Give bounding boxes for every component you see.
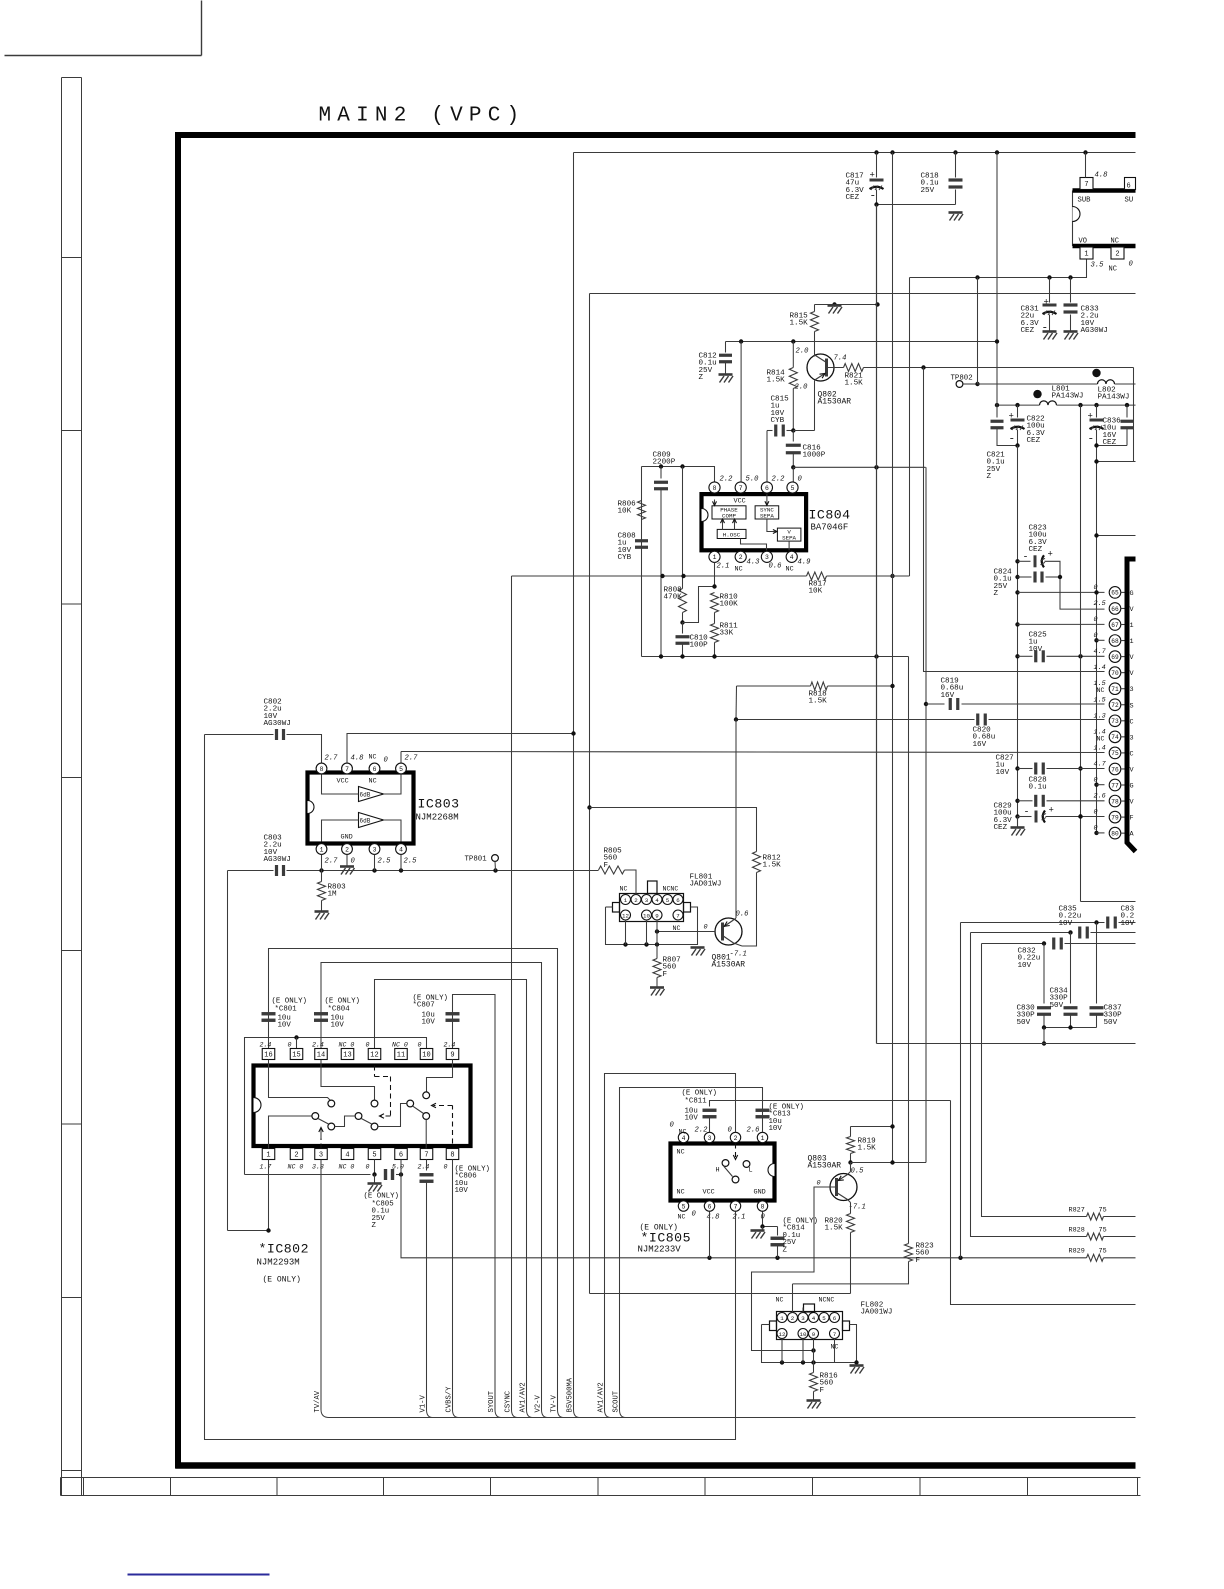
IC802 pin 15: [290, 1049, 303, 1060]
svg-text:NC: NC: [1111, 238, 1119, 246]
svg-text:2: 2: [739, 554, 743, 561]
svg-text:75: 75: [1099, 1248, 1107, 1256]
svg-text:3: 3: [708, 1135, 712, 1142]
svg-text:470K: 470K: [664, 594, 683, 602]
svg-text:6: 6: [765, 485, 769, 492]
svg-text:-: -: [1023, 553, 1029, 564]
capacitor C831: [1049, 278, 1051, 303]
svg-text:0: 0: [288, 1042, 292, 1049]
svg-text:7: 7: [424, 1152, 428, 1160]
wire pin67 line: [1015, 622, 1019, 626]
svg-text:4.3: 4.3: [747, 559, 761, 567]
svg-text:2.4: 2.4: [312, 1042, 324, 1049]
svg-text:NCNC: NCNC: [663, 886, 679, 893]
svg-text:10V: 10V: [1018, 962, 1032, 970]
wire L802 line y=383.5: [978, 383, 1098, 385]
IC802 pin 8: [446, 1149, 459, 1160]
wire C811 line y=1100 to page edge: [710, 1101, 951, 1107]
VPC pin 74: [1109, 731, 1121, 743]
svg-text:79: 79: [1111, 814, 1119, 821]
wire C835 line y=922: [961, 922, 1105, 924]
wire pin65 line: [1015, 590, 1019, 594]
svg-text:25V: 25V: [921, 187, 935, 195]
wire rail x=925.5 (sync to pin72 / Q803): [925, 467, 927, 1162]
wire rail C y=404.6: [997, 404, 1040, 406]
svg-text:CYB: CYB: [771, 417, 785, 425]
wire C-line y=932: [971, 932, 1071, 934]
svg-text:(E ONLY): (E ONLY): [325, 998, 360, 1006]
FL802 pin 5: [819, 1313, 829, 1323]
wire IC804 pin7 up to y=341: [740, 342, 742, 482]
svg-text:1: 1: [713, 554, 717, 561]
svg-text:6: 6: [676, 897, 680, 904]
svg-text:NJM2268M: NJM2268M: [416, 813, 459, 823]
VPC pin 67: [1109, 619, 1121, 631]
IC802 pin 5: [368, 1149, 381, 1160]
wire rail x=908 (from bus y=656 through R823): [908, 657, 910, 1244]
svg-text:5: 5: [791, 485, 795, 492]
svg-text:1: 1: [761, 1135, 765, 1142]
svg-text:Z: Z: [783, 1246, 788, 1254]
svg-text:F: F: [820, 1387, 825, 1395]
svg-text:10V: 10V: [422, 1019, 436, 1027]
resistor R811: [714, 613, 716, 624]
wire FL801 bottom links: [606, 906, 613, 908]
svg-text:+: +: [1044, 298, 1049, 308]
svg-text:68: 68: [1111, 638, 1119, 645]
resistor R828: [1087, 1233, 1104, 1240]
FL801 pin 1: [621, 895, 631, 905]
svg-text:3: 3: [765, 554, 769, 561]
svg-text:2: 2: [345, 846, 349, 853]
IC802 pin3 dashed arrow: [320, 1139, 322, 1149]
svg-text:0.6: 0.6: [736, 911, 750, 919]
svg-text:2.4: 2.4: [260, 1042, 272, 1049]
svg-text:SYOUT: SYOUT: [488, 1390, 496, 1412]
inductor L801: [1040, 401, 1057, 405]
wire signal rail curve: [558, 1410, 564, 1418]
svg-text:B5V500MA: B5V500MA: [567, 1377, 575, 1412]
svg-text:H.OSC: H.OSC: [723, 532, 741, 539]
svg-text:R827: R827: [1069, 1207, 1085, 1215]
wire R818 line y=685.5: [737, 685, 811, 687]
svg-text:2: 2: [634, 897, 638, 904]
svg-text:2200P: 2200P: [653, 459, 676, 467]
IC803 pin 5: [396, 763, 407, 774]
svg-text:G: G: [1130, 783, 1134, 791]
svg-text:14: 14: [317, 1052, 325, 1060]
IC805 pin 7: [730, 1201, 740, 1211]
svg-text:A1530AR: A1530AR: [712, 961, 746, 970]
IC802 pin 2: [290, 1149, 303, 1160]
IC801 VPC body edge (cut): [1125, 557, 1136, 852]
resistor R819: [851, 1126, 893, 1128]
svg-text:(E ONLY): (E ONLY): [364, 1193, 399, 1201]
svg-text:4.8: 4.8: [351, 755, 365, 763]
svg-text:4.7: 4.7: [1094, 648, 1107, 656]
svg-text:66: 66: [1111, 606, 1119, 613]
svg-text:0: 0: [351, 858, 356, 866]
svg-text:6: 6: [1127, 183, 1131, 191]
wire x=996.5 from B5V to rail C: [996, 153, 998, 406]
svg-text:2.5: 2.5: [404, 858, 418, 866]
IC803 pin 6: [369, 763, 380, 774]
capacitor C817: [876, 153, 878, 178]
svg-text:10: 10: [800, 1331, 807, 1338]
svg-text:8: 8: [320, 766, 324, 773]
IC802 pin 4: [341, 1149, 354, 1160]
ground right of FL801: [691, 946, 705, 949]
FL801 pin 10: [642, 910, 652, 920]
svg-text:-: -: [1024, 808, 1030, 819]
wire C819 line to pin72: [926, 703, 945, 705]
svg-text:3: 3: [801, 1315, 805, 1322]
wire base line y=367 with R821: [827, 367, 844, 369]
svg-text:1.5K: 1.5K: [767, 377, 786, 385]
capacitor C836 (electrolytic): [1096, 405, 1098, 417]
svg-text:*IC805: *IC805: [641, 1231, 691, 1246]
IC804 pin 8: [709, 482, 720, 493]
svg-text:1.5K: 1.5K: [858, 1145, 877, 1153]
wire outer bottom bus y=1439: [205, 735, 736, 1440]
resistor R806: [638, 501, 646, 520]
capacitor C812: [725, 342, 727, 353]
ground below C812: [719, 373, 733, 376]
FL802 pin 4: [809, 1313, 819, 1323]
wire rail x=909 (VO to CSYNC line): [909, 278, 911, 577]
page corner box (top-left): [5, 55, 202, 57]
capacitor C837: [1096, 923, 1098, 1004]
svg-text:1: 1: [1130, 622, 1134, 630]
svg-text:69: 69: [1111, 654, 1119, 661]
IC802 pin 12: [368, 1049, 381, 1060]
FL801 pin 5: [663, 895, 673, 905]
svg-text:6: 6: [399, 1152, 403, 1160]
transistor Q803: [830, 1174, 857, 1201]
VPC pin 75: [1109, 747, 1121, 759]
resistor R821: [844, 364, 864, 372]
svg-text:10K: 10K: [618, 508, 632, 516]
svg-text:NC 0: NC 0: [339, 1042, 355, 1049]
transistor Q801: [715, 918, 742, 945]
svg-text:*IC802: *IC802: [259, 1242, 309, 1257]
IC804 pin 7: [735, 482, 746, 493]
svg-text:C: C: [1130, 718, 1134, 726]
svg-text:4: 4: [345, 1152, 349, 1160]
svg-text:10K: 10K: [809, 588, 823, 596]
svg-text:10V: 10V: [1121, 920, 1135, 928]
svg-text:Z: Z: [987, 473, 992, 481]
svg-text:-: -: [870, 191, 877, 203]
svg-text:2.2: 2.2: [772, 476, 786, 484]
svg-text:74: 74: [1111, 734, 1119, 741]
ground IC803 pin2: [346, 855, 348, 867]
IC804 pin 4: [786, 551, 797, 562]
FL802 pin 9: [809, 1329, 819, 1339]
svg-text:10V: 10V: [278, 1022, 292, 1030]
svg-text:+: +: [1049, 806, 1054, 816]
svg-text:2: 2: [734, 1135, 738, 1142]
wire rail x=950 down to y=1304: [951, 1101, 1136, 1305]
IC805 pin 5: [678, 1201, 688, 1211]
FL801 pin 6: [673, 895, 683, 905]
FL802 top tab: [804, 1304, 815, 1312]
svg-text:80: 80: [1111, 830, 1119, 837]
wire B5V bus y=152: [574, 152, 1136, 154]
svg-text:0: 0: [1129, 261, 1134, 269]
svg-text:G: G: [1130, 590, 1134, 598]
svg-text:2.4: 2.4: [444, 1042, 456, 1049]
capacitor C813 (E ONLY): [756, 1109, 770, 1112]
wire Q801 collector rail x=735.5: [735, 686, 738, 720]
wire IC803 bottom bus y=870: [322, 870, 599, 872]
wire IC802 pin1 to left rail: [228, 1160, 269, 1231]
svg-text:F: F: [916, 1257, 921, 1265]
svg-text:Z: Z: [994, 590, 999, 598]
svg-text:0.5: 0.5: [851, 1168, 865, 1176]
wire pin80 line: [1094, 831, 1098, 835]
IC802 pin 9: [446, 1049, 459, 1060]
VPC pin 70: [1109, 667, 1121, 679]
svg-text:7: 7: [734, 1203, 738, 1210]
svg-text:0: 0: [366, 1164, 370, 1171]
pin 7 of top-right connector: [1080, 178, 1093, 190]
svg-text:SUB: SUB: [1078, 197, 1092, 205]
IC803 pin 8: [316, 763, 327, 774]
svg-text:4: 4: [790, 554, 794, 561]
svg-text:5: 5: [372, 1152, 376, 1160]
wire R817 CSYNC line y=575: [512, 575, 807, 577]
wire loop2 y=962 (V2-V): [321, 963, 542, 1410]
svg-text:2.7: 2.7: [325, 755, 339, 763]
svg-text:16: 16: [264, 1052, 272, 1060]
svg-text:10V: 10V: [769, 1125, 783, 1133]
svg-text:0: 0: [728, 1127, 733, 1135]
FL802 pin 6: [830, 1313, 840, 1323]
svg-text:CYB: CYB: [618, 554, 632, 562]
svg-text:AG30WJ: AG30WJ: [264, 720, 291, 728]
capacitor C835: [1106, 917, 1109, 929]
capacitor C804 (E ONLY): [314, 1012, 328, 1015]
VPC pin 73: [1109, 715, 1121, 727]
svg-text:65: 65: [1111, 590, 1119, 597]
connector/IC top-right (cut) body: [1072, 191, 1074, 247]
svg-text:VCC: VCC: [337, 778, 349, 786]
wire rail x=970 to R828: [971, 933, 1087, 1237]
svg-text:V2-V: V2-V: [535, 1395, 543, 1413]
svg-text:0: 0: [444, 1164, 448, 1171]
IC802 pin 1: [262, 1149, 275, 1160]
IC804 pin 2: [735, 551, 746, 562]
svg-text:10V: 10V: [996, 769, 1010, 777]
svg-text:0: 0: [418, 1042, 422, 1049]
wire rail x=573 (B5V500MA): [573, 153, 575, 1410]
svg-text:1.5K: 1.5K: [790, 320, 809, 328]
svg-text:*C807: *C807: [413, 1002, 435, 1010]
svg-text:AG30WJ: AG30WJ: [1081, 327, 1108, 335]
capacitor C810: [682, 623, 684, 634]
wire bottom signal bus y=1417: [321, 1410, 1136, 1418]
svg-text:*C804: *C804: [328, 1006, 351, 1014]
wire loop1 y=948 (TV-V): [269, 949, 558, 1410]
svg-text:NC: NC: [369, 778, 377, 786]
IC804 pin 3: [761, 551, 772, 562]
wire signal rail curve: [495, 1410, 501, 1418]
wire IC803 pin5 line y=751 to pin75: [400, 752, 402, 763]
VPC pin 71: [1109, 683, 1121, 695]
VPC pin 69: [1109, 651, 1121, 663]
svg-text:1: 1: [624, 897, 628, 904]
svg-text:0: 0: [1094, 616, 1098, 624]
wire rail x=589: [589, 294, 591, 1294]
svg-text:VO: VO: [1079, 238, 1087, 246]
resistor R817: [807, 572, 827, 580]
wire C809 top bus y=466: [642, 467, 715, 482]
VPC pin 79: [1109, 811, 1121, 823]
wire pin5 drop from sync node: [792, 467, 794, 482]
svg-text:NC: NC: [786, 566, 794, 574]
capacitor C819: [949, 698, 952, 710]
svg-text:+: +: [870, 171, 875, 181]
svg-text:TV/AV: TV/AV: [314, 1390, 322, 1412]
inductor L802: [1098, 380, 1115, 384]
svg-text:1.3: 1.3: [1094, 712, 1106, 720]
svg-text:71: 71: [1111, 686, 1119, 693]
wire C830 column to y=1043 line: [1043, 1028, 1045, 1044]
IC805 pin 2: [730, 1132, 740, 1142]
capacitor C801 (E ONLY): [262, 1012, 276, 1015]
resistor R829: [1087, 1254, 1104, 1261]
IC805 switch: [722, 1160, 729, 1167]
svg-text:4.8: 4.8: [707, 1214, 721, 1222]
capacitor on y=932 line: [1078, 927, 1081, 939]
svg-text:BA7046F: BA7046F: [811, 523, 849, 533]
svg-text:12: 12: [622, 912, 629, 919]
wire rail x=892: [892, 153, 894, 1163]
FL802 pin 1: [777, 1313, 787, 1323]
IC803 body: [308, 773, 414, 844]
node C815/R814/Q802emitter: [791, 428, 795, 432]
wire signal rail curve: [427, 1410, 433, 1418]
svg-text:0: 0: [384, 757, 389, 765]
svg-text:A1530AR: A1530AR: [808, 1162, 842, 1171]
wire loop4 y=994 (SYOUT): [453, 995, 496, 1410]
wire Q803 collector to R820: [848, 1200, 851, 1203]
IC802 pin 13: [341, 1049, 354, 1060]
IC802 switch link wires: [335, 1116, 355, 1127]
capacitor C806 (E ONLY): [420, 1173, 434, 1176]
svg-text:*C811: *C811: [685, 1098, 708, 1106]
svg-text:0: 0: [817, 1180, 821, 1188]
resistor R820: [847, 1214, 855, 1233]
svg-text:4: 4: [682, 1135, 686, 1142]
wire signal rail curve: [512, 1410, 518, 1418]
footer underline mark: [128, 1574, 270, 1576]
capacitor C828: [1015, 799, 1019, 803]
svg-text:0: 0: [1094, 825, 1098, 833]
svg-text:7: 7: [1084, 181, 1088, 189]
svg-text:SEPA: SEPA: [782, 535, 796, 542]
left margin ruler: [61, 78, 63, 1496]
filter FL802 body: [777, 1312, 843, 1340]
svg-text:R829: R829: [1069, 1248, 1085, 1256]
FL801 pin 4: [652, 895, 662, 905]
IC802 pin 10: [420, 1049, 433, 1060]
wire C820 line y=719 to pin73: [736, 719, 975, 721]
wire rail x=1080 corner to page edge y=901: [1081, 901, 1136, 903]
wire R808 elbow to R810 column: [683, 587, 715, 623]
svg-text:100P: 100P: [690, 642, 709, 650]
svg-text:6dB: 6dB: [360, 818, 371, 825]
wire R815 top / ground line y=304: [815, 304, 878, 306]
wire IC802 pin6 long line y=1257.3: [401, 1160, 1087, 1258]
svg-text:AV1/AV2: AV1/AV2: [598, 1382, 606, 1412]
IC803 internal wires: [322, 775, 359, 795]
ground below C805 node: [374, 1175, 376, 1184]
wire IC804 pin1 column with R810 R811: [714, 563, 716, 587]
resistor R814: [792, 342, 794, 368]
capacitor C824: [1015, 575, 1019, 579]
svg-text:2.7: 2.7: [405, 755, 419, 763]
svg-text:CEZ: CEZ: [994, 824, 1008, 832]
svg-text:2.0: 2.0: [796, 348, 810, 356]
svg-text:0: 0: [692, 1211, 697, 1219]
svg-text:3: 3: [373, 846, 377, 853]
svg-text:12: 12: [370, 1052, 378, 1060]
svg-text:-7.1: -7.1: [849, 1204, 866, 1212]
svg-text:2: 2: [791, 1315, 795, 1322]
svg-text:CEZ: CEZ: [1029, 546, 1043, 554]
svg-text:SU: SU: [1125, 197, 1134, 205]
svg-text:2: 2: [1115, 251, 1119, 259]
FL802 pin 2: [788, 1313, 798, 1323]
resistor R823: [905, 1244, 913, 1262]
resistor R827: [1087, 1213, 1104, 1220]
svg-text:+: +: [1009, 412, 1014, 422]
svg-text:1.5K: 1.5K: [763, 862, 782, 870]
svg-text:7: 7: [739, 485, 743, 492]
FL802 side tabs: [770, 1321, 777, 1331]
ground right of FL802: [850, 1364, 864, 1367]
svg-text:2.6: 2.6: [1094, 793, 1106, 801]
svg-text:1.4: 1.4: [1094, 744, 1106, 752]
svg-text:JA001WJ: JA001WJ: [861, 1309, 893, 1317]
svg-text:1.5K: 1.5K: [825, 1225, 844, 1233]
capacitor C827: [1015, 766, 1019, 770]
capacitor C823 (electrolytic horizontal): [1015, 559, 1019, 563]
wire IC805 pin2 line y=1073 (AV1/AV2): [605, 1074, 736, 1410]
capacitor C830: [1043, 944, 1045, 1004]
schematic bold border frame: [178, 135, 1136, 1469]
svg-text:L: L: [749, 1167, 753, 1175]
svg-text:5: 5: [399, 766, 403, 773]
svg-text:C: C: [1130, 750, 1134, 758]
wire IC802 pin7 column (V1-V) with C806: [426, 1160, 428, 1171]
svg-text:1: 1: [1130, 638, 1134, 646]
wire signal rail curve: [574, 1410, 580, 1418]
IC802 dashed control lines: [375, 1066, 391, 1117]
wire R812 to Q801 emitter: [742, 873, 757, 947]
transistor Q802: [807, 354, 834, 381]
svg-text:9: 9: [655, 912, 659, 919]
svg-text:72: 72: [1111, 702, 1119, 709]
svg-text:TV-V: TV-V: [551, 1395, 559, 1413]
svg-text:NC: NC: [369, 754, 377, 761]
svg-text:50V: 50V: [1050, 1002, 1064, 1010]
wire TP802 rail up: [977, 278, 979, 385]
svg-text:NC 0: NC 0: [339, 1164, 355, 1171]
IC802 switch contacts: [328, 1100, 335, 1107]
